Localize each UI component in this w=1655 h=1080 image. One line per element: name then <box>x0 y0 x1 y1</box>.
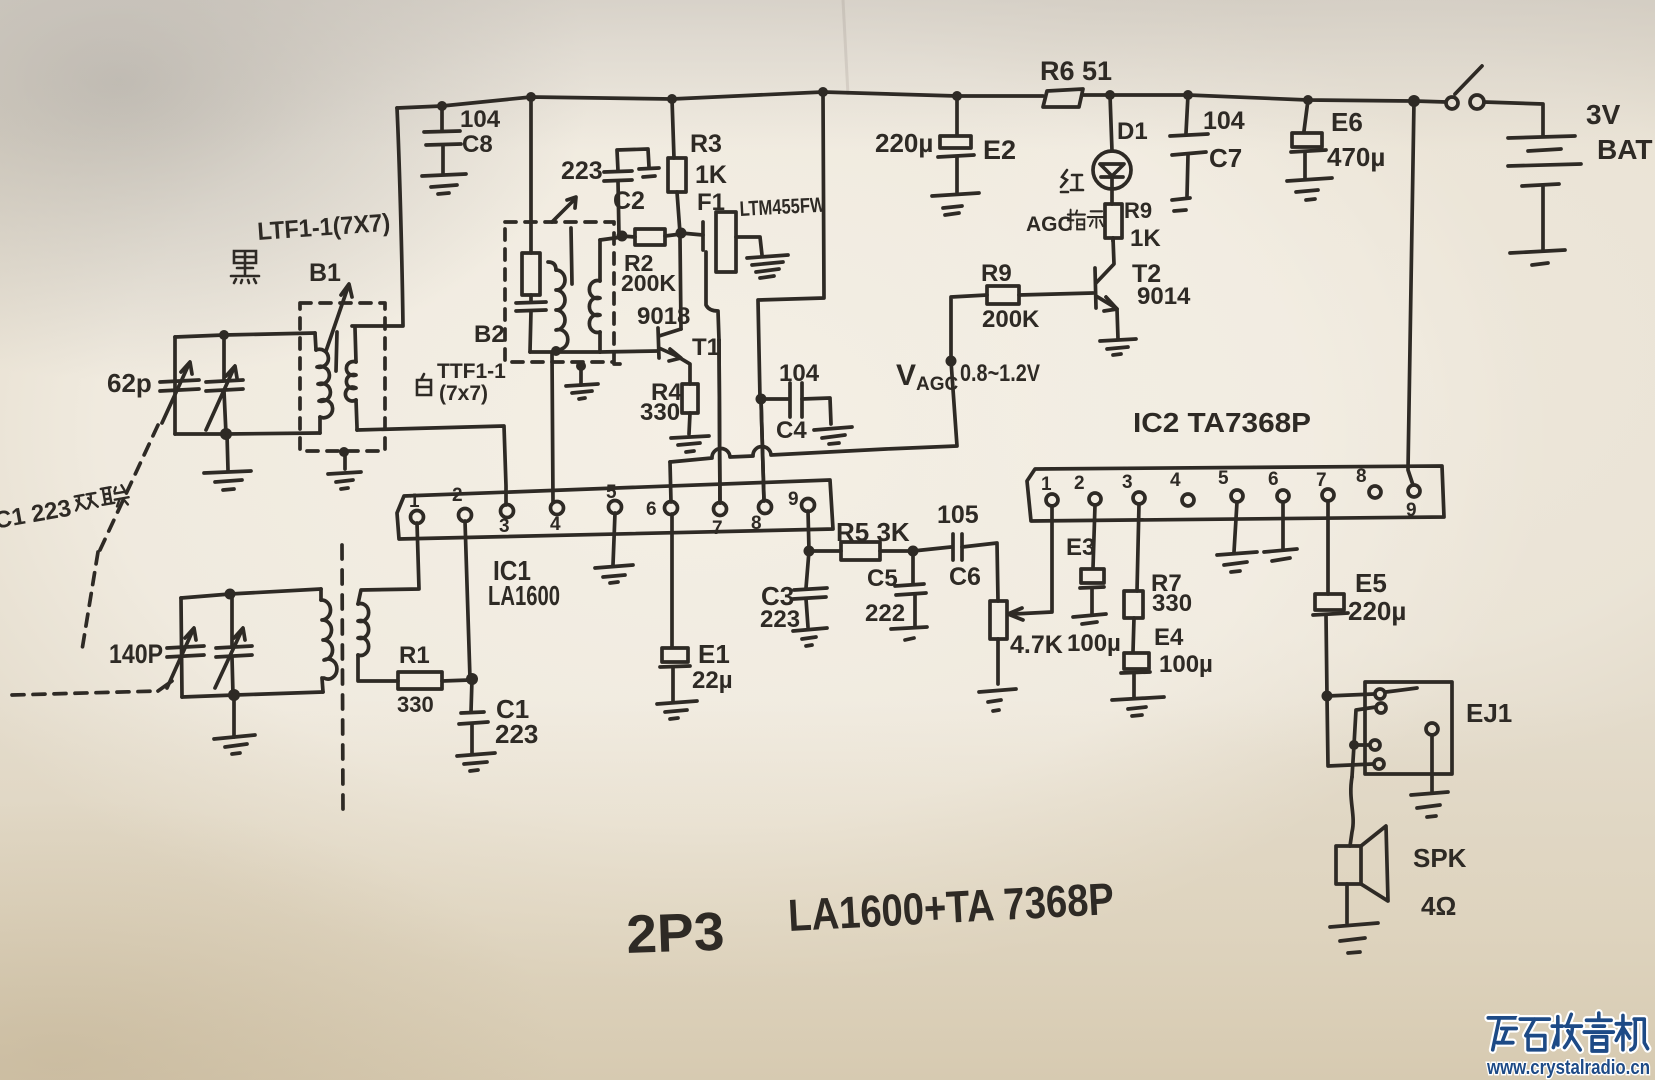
svg-text:6: 6 <box>1268 469 1279 490</box>
svg-text:330: 330 <box>640 399 680 426</box>
svg-text:4: 4 <box>550 514 561 535</box>
svg-text:3: 3 <box>1122 472 1133 493</box>
ground below 4.7K <box>979 689 1016 711</box>
ground at IC2 pin5 <box>1217 502 1257 572</box>
svg-text:100µ: 100µ <box>1159 651 1213 678</box>
wire VAGC line from IC1 pin6 to R9 <box>670 295 987 462</box>
IC2 TA7368P body <box>1027 466 1444 521</box>
svg-text:1K: 1K <box>1130 225 1161 252</box>
node junction dots on rail <box>437 87 1420 111</box>
wire switch to battery <box>1484 102 1543 136</box>
svg-text:E5: E5 <box>1355 568 1387 598</box>
svg-text:3V: 3V <box>1586 99 1621 130</box>
svg-text:223: 223 <box>561 157 603 185</box>
resistor R7 330 <box>1124 591 1143 652</box>
wire IC2 pin3 to R7 <box>1137 504 1139 591</box>
B2 tank winding <box>548 262 568 350</box>
dashed gang arrow tip <box>158 681 172 691</box>
svg-text:470µ: 470µ <box>1327 142 1385 172</box>
svg-text:F1: F1 <box>697 189 725 216</box>
transistor T1 9018 <box>658 238 690 384</box>
ground below battery <box>1510 250 1565 265</box>
svg-text:223: 223 <box>760 606 800 633</box>
ground below EJ1 <box>1411 735 1448 817</box>
ground below 62p tank <box>204 434 251 490</box>
svg-text:E4: E4 <box>1154 624 1184 651</box>
wire rail to B1 secondary <box>352 108 403 326</box>
svg-text:7: 7 <box>712 518 723 539</box>
variable capacitor 62p tank loop <box>175 333 320 434</box>
ground below C1 <box>457 753 495 771</box>
svg-text:IC2 TA7368P: IC2 TA7368P <box>1133 407 1311 438</box>
wire IC1 pin2 down <box>465 521 470 679</box>
IC2 pin numbers <box>1041 466 1417 521</box>
ground below E3 <box>1073 614 1106 624</box>
ground at IC1 pin5 <box>595 513 633 583</box>
battery 3V BAT <box>1508 136 1581 250</box>
svg-text:1: 1 <box>409 491 420 512</box>
svg-text:E6: E6 <box>1331 107 1363 137</box>
svg-text:AGC: AGC <box>916 374 959 395</box>
ground below B2 <box>566 366 598 399</box>
wire IC1 pin7 riser <box>719 340 720 503</box>
svg-text:C7: C7 <box>1209 143 1242 173</box>
resistor R6 51 <box>1043 89 1083 107</box>
ground below 140P tank <box>214 695 255 754</box>
electrolytic E4 100u <box>1121 653 1150 697</box>
svg-text:E2: E2 <box>983 135 1016 165</box>
IC1 LA1600 body <box>397 480 833 539</box>
ground below E2 <box>932 193 979 215</box>
capacitor C7 104 <box>1170 95 1208 211</box>
svg-text:LTM455FW: LTM455FW <box>739 194 826 221</box>
B2 feedback winding <box>589 240 600 352</box>
svg-text:104: 104 <box>779 360 820 387</box>
resistor R9 1K <box>1105 189 1122 241</box>
svg-text:105: 105 <box>937 501 979 529</box>
wire IC2 pin7 to E5 <box>1326 501 1330 594</box>
svg-text:9: 9 <box>1406 500 1417 521</box>
potentiometer 4.7K <box>990 601 1007 684</box>
capacitor C8 104 <box>422 106 466 194</box>
svg-text:5: 5 <box>606 482 617 503</box>
svg-text:330: 330 <box>1152 590 1192 617</box>
variable capacitor 62p unit B <box>206 335 243 434</box>
svg-text:104: 104 <box>460 106 501 133</box>
svg-text:D1: D1 <box>1117 118 1148 145</box>
wire IC2 pin2 to E3 <box>1093 505 1095 568</box>
svg-text:62p: 62p <box>107 368 152 398</box>
svg-text:R9: R9 <box>1124 198 1152 223</box>
resistor R9 200K <box>987 286 1093 304</box>
electrolytic E2 220u <box>938 96 974 192</box>
wire pin6 riser <box>670 462 671 502</box>
wire rail to IC2 pin9 <box>1408 101 1414 485</box>
ground below E4 <box>1112 697 1164 716</box>
resistor R5 3K <box>809 542 911 560</box>
svg-text:AGC: AGC <box>1026 213 1073 236</box>
electrolytic E3 100u <box>1080 569 1104 614</box>
svg-text:9018: 9018 <box>637 303 690 330</box>
B1 shield dashed box <box>300 303 385 451</box>
electrolytic E1 22u <box>660 648 690 701</box>
wire IC1 pin8 riser <box>761 399 764 501</box>
140P tank coil <box>321 600 337 679</box>
variable capacitor 62p unit A <box>160 362 199 423</box>
svg-text:222: 222 <box>865 600 905 627</box>
svg-text:1: 1 <box>1041 474 1052 495</box>
svg-text:220µ: 220µ <box>1348 596 1406 626</box>
variable capacitor 140P unit A <box>167 628 204 688</box>
ground below C3 <box>793 628 827 646</box>
hanzi label bai (white) for B2 <box>417 374 431 395</box>
wire rail to B2 primary <box>529 97 533 253</box>
resistor R1 330 <box>398 672 470 689</box>
hanzi label hei (black) for B1 <box>231 251 259 283</box>
wire C4 node down to IC1 pin8 <box>761 399 764 501</box>
svg-text:9014: 9014 <box>1137 283 1191 310</box>
svg-text:R3: R3 <box>690 130 722 158</box>
svg-text:B1: B1 <box>309 259 341 287</box>
wire B2 top to C2 node <box>600 237 622 240</box>
svg-text:E1: E1 <box>698 639 730 669</box>
wire B1 secondary to IC1 pin3 <box>357 426 506 505</box>
watermark crystalradio.cn url <box>1486 1056 1650 1079</box>
transformer B2 primary winding box <box>522 253 540 295</box>
ground below B1 <box>328 452 361 489</box>
wire top supply rail <box>397 92 1446 108</box>
svg-text:SPK: SPK <box>1413 843 1467 873</box>
ground below R4 <box>671 436 709 452</box>
svg-text:4Ω: 4Ω <box>1421 891 1456 921</box>
wire F1 out down to IC1 pin7 <box>719 340 720 503</box>
wire rail drop to C4 branch <box>758 92 824 399</box>
IC1 pin numbers <box>409 482 799 539</box>
oscillator coil secondary <box>358 604 398 682</box>
svg-text:220µ: 220µ <box>875 128 933 158</box>
variable capacitor 140P tank loop <box>181 589 323 697</box>
hanzi label shuanglian (twin-gang) <box>74 493 98 511</box>
svg-text:LA1600: LA1600 <box>488 580 560 611</box>
svg-text:330: 330 <box>397 692 434 717</box>
ground at IC2 pin6 <box>1264 502 1297 561</box>
electrolytic E6 470u <box>1291 100 1326 179</box>
B2 shield dashed box <box>505 222 620 364</box>
svg-text:C2: C2 <box>613 187 645 215</box>
earphone jack EJ1 <box>1327 682 1452 777</box>
svg-text:100µ: 100µ <box>1067 630 1121 657</box>
wiper arrow from IC2 pin1 <box>1008 506 1052 620</box>
capacitor C6 105 <box>913 534 998 601</box>
svg-text:1K: 1K <box>695 161 727 189</box>
svg-text:R9: R9 <box>981 260 1012 287</box>
capacitor C3 223 <box>793 551 827 627</box>
IC1 pins <box>411 499 815 524</box>
ground below C5 <box>891 627 927 640</box>
svg-text:www.crystalradio.cn: www.crystalradio.cn <box>1486 1056 1650 1079</box>
svg-text:2: 2 <box>452 485 463 506</box>
ground below E6 <box>1287 178 1332 200</box>
dashed gang capacitor separator <box>342 545 343 815</box>
capacitor C5 222 <box>895 551 926 626</box>
switch S1 <box>1446 66 1484 109</box>
variable capacitor 140P unit B <box>215 594 252 695</box>
svg-text:(7x7): (7x7) <box>439 382 488 405</box>
svg-text:E3: E3 <box>1066 534 1095 561</box>
LED D1 <box>1093 95 1131 189</box>
wire T1 base to B2 <box>600 351 658 352</box>
dashed gang line to 140P <box>12 425 158 695</box>
svg-text:3: 3 <box>499 516 510 537</box>
svg-text:4.7K: 4.7K <box>1010 631 1063 659</box>
svg-text:104: 104 <box>1203 107 1245 135</box>
svg-text:22µ: 22µ <box>692 667 733 694</box>
B1 tuning arrow <box>326 284 352 371</box>
transformer B1 primary winding <box>315 333 333 433</box>
svg-text:2: 2 <box>1074 473 1085 494</box>
svg-text:EJ1: EJ1 <box>1466 698 1512 728</box>
svg-text:9: 9 <box>788 489 799 510</box>
ground below SPK <box>1330 923 1378 953</box>
svg-text:BAT: BAT <box>1597 134 1652 165</box>
hanzi label zhishi (indicator) for AGC <box>1068 210 1085 230</box>
ceramic filter F1 LTM455FW <box>681 212 762 340</box>
wire IC1 pin9 node <box>808 511 809 551</box>
svg-text:T1: T1 <box>692 334 720 361</box>
svg-text:C4: C4 <box>776 417 807 444</box>
svg-text:V: V <box>896 359 916 392</box>
svg-text:140P: 140P <box>109 639 163 669</box>
svg-text:C8: C8 <box>462 131 493 158</box>
svg-text:5: 5 <box>1218 468 1229 489</box>
svg-text:R1: R1 <box>399 642 430 669</box>
capacitor C2 223 <box>604 149 659 236</box>
svg-text:8: 8 <box>751 513 762 534</box>
resistor R4 330 <box>682 384 698 434</box>
svg-text:223: 223 <box>495 719 538 749</box>
svg-text:C5: C5 <box>867 565 898 592</box>
capacitor C4 104 <box>760 383 852 444</box>
svg-text:R6 51: R6 51 <box>1040 56 1112 86</box>
svg-text:200K: 200K <box>982 306 1040 333</box>
ground below T2 <box>1100 339 1136 355</box>
speaker SPK 4ohm <box>1336 777 1388 923</box>
capacitor C1 223 <box>459 679 488 753</box>
wire IC1 pin4 riser to B2 <box>552 352 553 502</box>
svg-text:TTF1-1: TTF1-1 <box>437 360 506 383</box>
IC2 pins <box>1046 485 1420 506</box>
B2 tuning arrow <box>552 197 576 284</box>
resistor R2 200K <box>622 229 681 245</box>
resistor R3 1K <box>668 99 686 233</box>
hanzi label hong (red) for D1 <box>1061 170 1083 192</box>
capacitor inside B2 <box>516 295 546 352</box>
wire IC1 pin6 to E1 <box>670 514 674 647</box>
svg-text:B2: B2 <box>474 321 505 348</box>
watermark logo hanzi crystalradio <box>1488 1018 1517 1050</box>
svg-text:8: 8 <box>1356 466 1367 487</box>
svg-text:4: 4 <box>1170 470 1181 491</box>
wire B2 bottom bar <box>530 350 600 354</box>
svg-text:6: 6 <box>646 499 657 520</box>
electrolytic E5 220u <box>1313 594 1348 696</box>
svg-text:2P3: 2P3 <box>625 902 725 965</box>
transformer B1 secondary winding <box>345 328 357 430</box>
svg-text:R5 3K: R5 3K <box>836 517 910 547</box>
svg-text:7: 7 <box>1316 470 1327 491</box>
transistor T2 9014 <box>1095 238 1118 339</box>
svg-text:200K: 200K <box>621 270 676 296</box>
wire IC1 pin1 to oscillator coil <box>358 523 419 604</box>
svg-text:C6: C6 <box>949 563 981 591</box>
ground below E1 <box>657 701 697 719</box>
ground at F1 <box>747 255 788 278</box>
svg-text:0.8~1.2V: 0.8~1.2V <box>960 360 1040 387</box>
